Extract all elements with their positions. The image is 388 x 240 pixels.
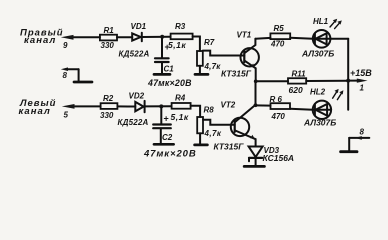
- terminal arrow pin 9: [61, 35, 100, 40]
- svg-text:R7: R7: [204, 38, 215, 47]
- svg-text:R5: R5: [274, 24, 285, 33]
- C2 value 47мк x 20В: [143, 149, 197, 160]
- wire R4 to R8 top corner: [191, 106, 201, 117]
- svg-text:КТ315Г: КТ315Г: [214, 142, 245, 152]
- resistor R1: [100, 35, 117, 41]
- wire R5 to HL1: [290, 38, 313, 39]
- common pin 8 bottom right: [341, 136, 370, 152]
- LED HL1: [313, 30, 331, 48]
- R1 labels: [101, 26, 115, 50]
- svg-text:9: 9: [63, 41, 68, 50]
- R11 labels: [289, 70, 307, 96]
- diode VD2: [135, 101, 144, 112]
- capacitor C2 plus sign: [164, 114, 169, 124]
- svg-text:КС156А: КС156А: [263, 153, 295, 163]
- pin 5 label: [64, 111, 69, 120]
- resistor R3: [171, 34, 193, 40]
- svg-text:47мк×20В: 47мк×20В: [147, 78, 192, 88]
- HL2 labels: [303, 88, 336, 128]
- VD3 labels: [263, 146, 295, 163]
- R7 labels: [204, 38, 222, 71]
- resistor R2: [101, 103, 118, 109]
- wire VT1 emitter node to R11: [256, 80, 288, 82]
- svg-text:470: 470: [271, 112, 286, 121]
- wire trunk VT1 emitter to VT2 collector: [255, 81, 257, 105]
- capacitor C2: [153, 106, 171, 142]
- VT2 labels: [214, 101, 245, 152]
- wire VT1 collector to R5: [255, 37, 270, 40]
- emitter/collector junction: [254, 79, 258, 83]
- svg-text:330: 330: [101, 41, 115, 50]
- svg-text:1: 1: [360, 84, 365, 93]
- R7 ground bar: [195, 73, 208, 76]
- svg-text:R8: R8: [204, 106, 215, 115]
- VD2 type label КД522А: [118, 118, 149, 127]
- VD1 label: [131, 22, 147, 31]
- wire R7 top to VT1 base: [203, 51, 245, 56]
- resistor R6: [271, 103, 291, 109]
- wire R6 to HL2: [290, 109, 313, 110]
- transistor VT2: [231, 105, 256, 146]
- terminal arrow pin 5: [62, 104, 101, 109]
- R6 labels: [270, 95, 286, 121]
- zener diode VD3: [249, 147, 263, 165]
- svg-text:канал: канал: [24, 35, 56, 46]
- node A junction: [160, 35, 164, 39]
- svg-text:+: +: [164, 114, 169, 124]
- resistor R4: [172, 103, 191, 109]
- svg-text:АЛ307Б: АЛ307Б: [301, 49, 334, 59]
- HL1 labels: [301, 17, 334, 59]
- resistor R5: [270, 33, 290, 39]
- svg-text:R4: R4: [175, 94, 186, 103]
- VD2 label: [129, 92, 145, 101]
- svg-text:4,7к: 4,7к: [204, 62, 222, 71]
- wire HL1 to right rail: [330, 38, 348, 40]
- wire R3 to R7 top corner: [193, 37, 200, 52]
- wire to R6: [256, 104, 271, 106]
- svg-text:+15В: +15В: [350, 68, 372, 78]
- HL1 emission arrows: [330, 19, 342, 29]
- svg-text:VT1: VT1: [237, 31, 252, 40]
- wire R1 to VD1: [117, 36, 132, 38]
- svg-text:С1: С1: [164, 65, 175, 74]
- svg-text:R 6: R 6: [270, 95, 283, 104]
- svg-text:8: 8: [63, 71, 68, 80]
- R8 ground bar: [195, 144, 208, 147]
- pin 9 label: [63, 41, 68, 50]
- resistor R7: [197, 51, 203, 73]
- svg-text:VD1: VD1: [131, 22, 147, 31]
- node label Левый канал: [19, 98, 57, 117]
- wire VD2 to node B: [145, 105, 172, 107]
- svg-text:5,1к: 5,1к: [168, 40, 186, 50]
- R6 junction: [254, 103, 258, 107]
- +15V pin 1: [346, 79, 367, 83]
- C2 ground bar: [154, 143, 174, 146]
- LED HL2: [313, 101, 331, 119]
- svg-text:4,7к: 4,7к: [204, 129, 222, 138]
- svg-text:VD2: VD2: [129, 92, 145, 101]
- C2 label: [162, 133, 173, 142]
- C1 value 47мк x 20В: [147, 78, 192, 88]
- pin 8 bottom right label: [360, 128, 365, 137]
- svg-text:5: 5: [64, 111, 69, 120]
- pin 8 top left label: [63, 71, 68, 80]
- C1 ground bar: [154, 73, 170, 76]
- VT1 labels: [221, 31, 252, 79]
- VD1 type label КД522А: [119, 50, 150, 59]
- wire R2 to VD2: [117, 105, 135, 107]
- resistor R8: [197, 117, 203, 143]
- svg-text:+: +: [165, 42, 170, 52]
- C1 label: [164, 65, 175, 74]
- right rail: [347, 39, 349, 110]
- svg-text:КД522А: КД522А: [119, 50, 150, 59]
- capacitor C1: [155, 37, 169, 73]
- svg-text:С2: С2: [162, 133, 173, 142]
- R4 labels: [171, 94, 189, 123]
- svg-text:HL1: HL1: [313, 17, 329, 26]
- common pin 8 top left: [61, 67, 92, 82]
- svg-text:КТ315Г: КТ315Г: [221, 69, 252, 79]
- svg-text:470: 470: [270, 40, 285, 49]
- R5 labels: [270, 24, 285, 49]
- svg-text:КД522А: КД522А: [118, 118, 149, 127]
- wire VD1 to node A: [142, 36, 171, 38]
- HL2 emission arrows: [333, 89, 344, 100]
- R2 labels: [100, 94, 114, 120]
- svg-text:R2: R2: [103, 94, 114, 103]
- svg-text:VT2: VT2: [221, 101, 236, 110]
- svg-text:канал: канал: [19, 106, 51, 117]
- svg-text:R1: R1: [104, 26, 115, 35]
- svg-text:330: 330: [100, 111, 114, 120]
- +15V labels: [350, 68, 372, 93]
- svg-text:8: 8: [360, 128, 365, 137]
- VD3 ground bar: [244, 165, 264, 168]
- svg-text:HL2: HL2: [310, 88, 326, 97]
- svg-text:5,1к: 5,1к: [171, 112, 189, 122]
- R8 labels: [204, 106, 222, 139]
- svg-text:АЛ307Б: АЛ307Б: [303, 118, 336, 128]
- capacitor C1 plus sign: [165, 42, 170, 52]
- node label Правый канал: [20, 27, 64, 46]
- svg-text:R3: R3: [175, 22, 186, 31]
- svg-text:47мк×20В: 47мк×20В: [143, 149, 197, 160]
- wire R11 to rail: [306, 80, 348, 82]
- svg-text:R11: R11: [292, 70, 307, 79]
- R3 labels: [168, 22, 186, 50]
- transistor VT1: [241, 39, 259, 82]
- wire R8 top to VT2 base: [203, 120, 235, 125]
- svg-text:620: 620: [289, 85, 303, 95]
- diode VD1: [132, 33, 142, 42]
- resistor R11: [288, 78, 306, 83]
- node B junction: [159, 104, 163, 108]
